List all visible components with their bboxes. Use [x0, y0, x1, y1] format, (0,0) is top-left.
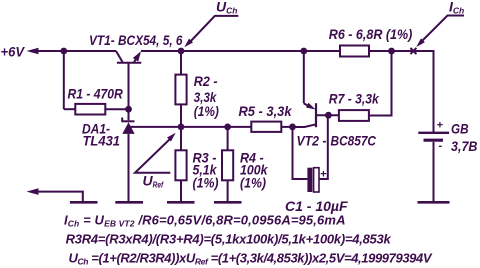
svg-text:UCh: UCh: [216, 0, 237, 15]
svg-text:R1 - 470R: R1 - 470R: [68, 85, 124, 101]
svg-text:3,7B: 3,7B: [451, 138, 478, 154]
svg-text:R5 - 3,3k: R5 - 3,3k: [239, 103, 293, 119]
svg-text:VT2 -: VT2 -: [297, 133, 327, 149]
svg-text:R2 -: R2 -: [194, 73, 218, 89]
svg-text:TL431: TL431: [83, 132, 121, 148]
svg-text:ICh: ICh: [449, 0, 464, 16]
svg-text:+: +: [437, 120, 444, 132]
svg-text:VT1- BCX54, 5, 6: VT1- BCX54, 5, 6: [89, 32, 183, 48]
svg-text:R3R4=(R3xR4)/(R3+R4)=(5,1kx100: R3R4=(R3xR4)/(R3+R4)=(5,1kx100k)/5,1k+10…: [66, 232, 392, 247]
svg-text:GB: GB: [451, 121, 469, 137]
svg-text:BC857C: BC857C: [331, 133, 377, 149]
svg-text:ICh = UEB VT2 /R6=0,65V/6,8R=0: ICh = UEB VT2 /R6=0,65V/6,8R=0,0956A=95,…: [64, 213, 346, 229]
svg-text:+6V: +6V: [1, 44, 26, 60]
svg-text:R6 - 6,8R (1%): R6 - 6,8R (1%): [329, 26, 413, 42]
svg-text:-: -: [439, 140, 443, 152]
svg-text:URef: URef: [143, 172, 165, 189]
svg-text:(1%): (1%): [193, 175, 219, 191]
svg-text:UCh =(1+(R2/R3R4))xURef =(1+(3: UCh =(1+(R2/R3R4))xURef =(1+(3,3k/4,853k…: [69, 251, 433, 267]
svg-text:(1%): (1%): [240, 175, 266, 191]
svg-text:+: +: [320, 169, 327, 181]
svg-text:(1%): (1%): [194, 103, 219, 119]
svg-text:R7 - 3,3k: R7 - 3,3k: [329, 90, 380, 106]
